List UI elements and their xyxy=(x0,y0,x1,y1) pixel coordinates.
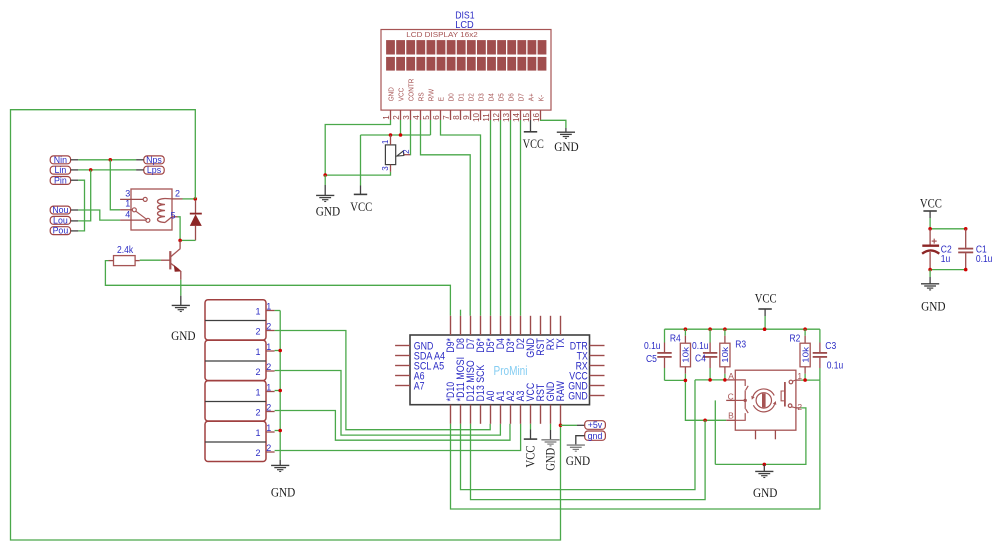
svg-text:GND: GND xyxy=(568,390,588,402)
LCD display DIS1 name labels xyxy=(455,11,475,31)
wire Nou to relay pin4 xyxy=(71,210,121,220)
trimmer potentiometer (LCD contrast) xyxy=(381,135,411,172)
wire LCD pin1 (GND) down-left to ground node xyxy=(325,120,390,175)
2-pin connector J2 xyxy=(205,340,275,380)
encoder rotary shaft symbol xyxy=(751,389,776,412)
svg-text:VCC: VCC xyxy=(350,199,372,214)
svg-text:VCC: VCC xyxy=(755,291,777,306)
ground symbol GND at transistor emitter xyxy=(171,280,195,343)
wire LCD pin6 (E) to ProMini D6* xyxy=(441,120,481,316)
svg-text:D5: D5 xyxy=(497,93,506,101)
svg-text:5: 5 xyxy=(422,115,431,120)
connector Nou xyxy=(50,205,70,215)
wire net B to ProMini D12 xyxy=(471,420,706,499)
svg-text:GND: GND xyxy=(554,139,578,154)
connector Lou xyxy=(50,215,70,225)
wire relay supply loop from +5v RAW around the page xyxy=(11,110,561,540)
svg-text:TX: TX xyxy=(555,338,567,350)
connector +5v xyxy=(585,420,606,430)
wire net B bottom C5-R4 to encoder pin B xyxy=(665,380,727,420)
capacitor C1 0.1u xyxy=(958,229,992,270)
wire J3 pin2 to ProMini A2 xyxy=(275,411,510,441)
ground symbol GND below connector block xyxy=(271,460,295,499)
svg-text:D7: D7 xyxy=(517,93,526,101)
wire RAW junction to +5v connector xyxy=(561,424,585,426)
wire LCD pin13 (D6) to ProMini D3* xyxy=(510,120,512,316)
wire LCD pin4 (RS) to ProMini D7 xyxy=(421,120,471,316)
svg-text:Nps: Nps xyxy=(146,155,162,165)
wire encoder VCC rail xyxy=(665,328,820,330)
connector Nin xyxy=(50,155,70,165)
junction VCC at trimmer pin1 xyxy=(389,133,393,137)
ground symbol GND below encoder xyxy=(753,464,777,500)
ProMini left pins xyxy=(395,340,445,392)
resistor R4 10k xyxy=(670,329,691,380)
svg-text:D4: D4 xyxy=(487,93,496,101)
svg-text:2: 2 xyxy=(255,367,260,377)
wire Lin net down to Lou xyxy=(71,170,91,221)
svg-text:3: 3 xyxy=(125,188,130,198)
encoder pin B xyxy=(726,411,745,421)
svg-text:A+: A+ xyxy=(527,93,536,102)
flyback diode xyxy=(190,200,202,240)
wire LCD pin3 (CONTR) to trimmer wiper xyxy=(409,120,411,155)
svg-text:2: 2 xyxy=(797,402,802,412)
rotary encoder body xyxy=(735,370,796,430)
ProMini bottom pin labels xyxy=(445,357,567,402)
wire 2.4k resistor to ProMini D9* xyxy=(105,261,450,316)
wire ground node to trimmer pin3 xyxy=(325,172,390,175)
encoder mounting stubs xyxy=(756,430,776,439)
wire VCC to C1 C2 top xyxy=(930,228,966,230)
svg-text:1: 1 xyxy=(255,428,260,438)
svg-text:Lps: Lps xyxy=(147,165,162,175)
svg-text:GND: GND xyxy=(921,299,945,314)
svg-text:1: 1 xyxy=(125,199,130,209)
junction switch net at R2 bottom xyxy=(803,378,807,382)
svg-text:Lou: Lou xyxy=(53,215,68,225)
svg-text:0.1u: 0.1u xyxy=(827,361,844,372)
connector Lps xyxy=(144,165,164,175)
svg-text:0.1u: 0.1u xyxy=(976,254,993,265)
svg-text:1: 1 xyxy=(382,115,391,120)
svg-text:GND: GND xyxy=(753,485,777,500)
svg-text:1: 1 xyxy=(255,347,260,357)
wire Pin to Pou xyxy=(71,180,85,231)
wire Nin to Nps xyxy=(71,159,144,161)
LCD display DIS1 body outline xyxy=(381,30,551,111)
svg-text:Lin: Lin xyxy=(55,165,67,175)
junction net B down to D12 xyxy=(703,419,707,423)
relay pin5 coil terminal xyxy=(171,211,181,241)
VCC supply symbol near trimmer xyxy=(350,135,372,214)
wire C1 C2 bottom to ground xyxy=(930,269,966,271)
svg-text:VCC: VCC xyxy=(523,136,544,151)
encoder pin C common xyxy=(726,392,745,402)
LCD pins 1-16 stubs and numbers xyxy=(382,110,541,122)
wire connector common ground bus xyxy=(275,311,281,461)
relay pin4 NO contact xyxy=(120,210,150,223)
relay coil xyxy=(158,199,173,223)
svg-text:16: 16 xyxy=(532,113,541,122)
capacitor C4 0.1u xyxy=(692,329,717,380)
relay pin2 coil terminal xyxy=(172,189,195,199)
svg-text:11: 11 xyxy=(482,113,491,122)
junction relay pin2 / diode cathode xyxy=(194,197,198,201)
svg-text:D6: D6 xyxy=(507,93,516,101)
junction encoder ground xyxy=(763,463,767,467)
svg-text:2: 2 xyxy=(255,327,260,337)
short net stub on ProMini D8 xyxy=(460,310,462,316)
svg-text:10k: 10k xyxy=(800,346,810,363)
LCD pin name labels xyxy=(387,78,546,101)
wire encoder pin2 and C to ground xyxy=(715,400,806,464)
svg-text:1: 1 xyxy=(266,342,271,352)
junction net A at R3 bottom xyxy=(723,378,727,382)
junction C1 bottom xyxy=(964,268,968,272)
ProMini bottom pins xyxy=(451,405,561,424)
resistor R3 10k xyxy=(720,329,747,380)
svg-text:0.1u: 0.1u xyxy=(644,341,661,352)
junction on Nin net xyxy=(109,158,113,162)
svg-text:GND: GND xyxy=(171,328,195,343)
VCC supply symbol at ProMini VCC pin xyxy=(523,424,538,468)
wire net switch R2-C3 to encoder pin 1 xyxy=(801,379,820,381)
svg-text:B: B xyxy=(728,411,734,421)
ground symbol at ProMini GND pin xyxy=(541,424,559,471)
svg-text:1u: 1u xyxy=(941,254,951,265)
svg-text:1: 1 xyxy=(381,139,390,144)
ground symbol GND below C2 xyxy=(921,270,946,314)
svg-text:R/W: R/W xyxy=(427,88,436,101)
transistor Q1 (NPN relay driver) xyxy=(161,240,182,279)
relay body outline xyxy=(131,189,172,230)
svg-text:5: 5 xyxy=(171,211,176,221)
svg-text:2: 2 xyxy=(255,448,260,458)
svg-text:GND: GND xyxy=(271,484,295,499)
svg-text:13: 13 xyxy=(502,113,511,122)
svg-text:C4: C4 xyxy=(695,353,706,364)
wire Lin to Lps xyxy=(71,169,144,171)
svg-text:C3: C3 xyxy=(825,341,836,352)
capacitor C3 0.1u xyxy=(813,329,844,380)
svg-text:+5v: +5v xyxy=(588,420,603,430)
svg-text:2: 2 xyxy=(175,189,180,199)
svg-text:2: 2 xyxy=(266,322,271,332)
resistor 2.4k base resistor xyxy=(109,245,161,266)
encoder pin 2 xyxy=(792,402,803,412)
VCC supply symbol at LCD pin15 xyxy=(523,120,544,151)
wire LCD pin11 (D4) to ProMini D5* xyxy=(490,120,492,316)
junction C2 top xyxy=(928,227,932,231)
junction ground bus J4 pin1 xyxy=(278,429,282,433)
junction VCC rail at R4 xyxy=(684,327,688,331)
svg-text:C5: C5 xyxy=(646,354,657,365)
junction collector node xyxy=(178,239,182,243)
connector gnd xyxy=(585,431,606,441)
svg-text:R4: R4 xyxy=(670,334,681,345)
svg-text:10: 10 xyxy=(472,113,481,122)
2-pin connector J1 xyxy=(205,300,275,340)
wire VCC rail to LCD pin2 and pin5 (R/W) xyxy=(361,120,431,135)
capacitor C5 0.1u xyxy=(644,329,672,380)
junction VCC at LCD pin2 xyxy=(399,133,403,137)
capacitor C2 1u polarized xyxy=(922,229,952,270)
junction VCC rail at R2 xyxy=(803,327,807,331)
svg-text:ProMini: ProMini xyxy=(494,363,528,378)
junction ground bus J3 pin1 xyxy=(278,389,282,393)
svg-text:GND: GND xyxy=(316,204,340,219)
svg-text:2: 2 xyxy=(266,443,271,453)
svg-text:6: 6 xyxy=(432,115,441,120)
svg-text:GND: GND xyxy=(387,87,396,102)
junction on Lin net xyxy=(89,168,93,172)
svg-text:1: 1 xyxy=(266,383,271,393)
svg-text:1: 1 xyxy=(266,302,271,312)
svg-text:9: 9 xyxy=(462,115,471,120)
svg-text:Nin: Nin xyxy=(54,155,67,165)
svg-text:Pou: Pou xyxy=(53,226,69,236)
wire LCD pin16 (K-) to ground xyxy=(541,120,566,128)
junction ground node xyxy=(323,173,327,177)
encoder pin 1 xyxy=(792,371,802,381)
svg-text:10k: 10k xyxy=(720,346,730,363)
encoder push switch xyxy=(781,380,793,407)
svg-text:15: 15 xyxy=(522,113,531,122)
wire net A bottom C4-R3 to encoder pin A xyxy=(695,379,726,381)
svg-text:RS: RS xyxy=(417,92,426,101)
svg-text:0.1u: 0.1u xyxy=(692,341,709,352)
svg-text:GND: GND xyxy=(543,448,558,471)
svg-text:VCC: VCC xyxy=(397,87,406,101)
svg-text:Nou: Nou xyxy=(52,205,68,215)
svg-text:7: 7 xyxy=(442,115,451,120)
junction ground bus J2 pin1 xyxy=(278,349,282,353)
svg-text:4: 4 xyxy=(412,115,421,120)
svg-text:D0: D0 xyxy=(447,93,456,101)
svg-text:3: 3 xyxy=(381,166,390,171)
wire switch net to ProMini D10 xyxy=(451,380,820,509)
svg-text:CONTR: CONTR xyxy=(407,78,416,101)
VCC supply symbol above encoder xyxy=(755,291,777,330)
ProMini right pins xyxy=(568,340,604,402)
wire J1 pin2 to ProMini A0 xyxy=(275,331,491,430)
junction C2 bottom xyxy=(928,268,932,272)
connector Nps xyxy=(144,155,164,165)
svg-text:A7: A7 xyxy=(414,380,425,392)
ground symbol GND at LCD pin16 xyxy=(554,128,578,154)
ProMini module body xyxy=(410,335,590,405)
svg-text:E: E xyxy=(437,97,446,101)
ProMini top pin labels xyxy=(445,338,567,358)
svg-text:2: 2 xyxy=(402,149,411,154)
svg-text:K-: K- xyxy=(537,94,546,101)
encoder pin A xyxy=(726,371,745,386)
junction VCC rail at VCC symbol xyxy=(763,327,767,331)
wire J4 pin2 to ProMini A3 xyxy=(275,424,521,451)
svg-text:VCC: VCC xyxy=(920,196,942,211)
svg-text:1: 1 xyxy=(255,388,260,398)
svg-text:1: 1 xyxy=(266,423,271,433)
connector Lin xyxy=(50,165,70,175)
svg-text:D3: D3 xyxy=(477,93,486,101)
svg-text:RAW: RAW xyxy=(555,380,567,401)
relay pin1 common contact and arm xyxy=(120,199,147,220)
relay pin3 NC contact xyxy=(120,188,147,201)
wire diode anode to transistor collector xyxy=(180,239,195,241)
svg-text:Pin: Pin xyxy=(54,176,67,186)
junction VCC rail at C4 xyxy=(708,327,712,331)
2-pin connector J4 xyxy=(205,421,275,461)
svg-text:C: C xyxy=(728,392,734,402)
encoder internal contacts xyxy=(744,386,748,413)
junction C1 top xyxy=(964,227,968,231)
connector Pin xyxy=(50,176,70,186)
svg-text:D2: D2 xyxy=(467,93,476,101)
junction VCC rail at R3 xyxy=(723,327,727,331)
VCC supply symbol at decoupling caps xyxy=(920,196,942,229)
2-pin connector J3 xyxy=(205,381,275,421)
wire net A to ProMini D11 xyxy=(461,380,696,490)
wire Nin net down to relay pin1 xyxy=(110,160,120,210)
svg-text:4: 4 xyxy=(125,210,130,220)
svg-text:R2: R2 xyxy=(790,334,801,345)
ground symbol at gnd connector xyxy=(566,436,590,468)
svg-text:1: 1 xyxy=(797,371,802,381)
svg-text:2: 2 xyxy=(255,408,260,418)
junction net A at C4 bottom xyxy=(708,378,712,382)
svg-text:A: A xyxy=(728,371,734,381)
resistor R2 10k xyxy=(790,329,811,380)
wire LCD pin12 (D5) to ProMini D4 xyxy=(500,120,502,316)
svg-text:2: 2 xyxy=(392,115,401,120)
svg-text:10k: 10k xyxy=(681,346,691,363)
LCD character cells xyxy=(386,40,546,71)
svg-text:GND: GND xyxy=(566,453,590,468)
svg-text:2: 2 xyxy=(266,362,271,372)
ProMini top pins xyxy=(451,316,561,335)
svg-text:R3: R3 xyxy=(735,339,746,350)
svg-text:3: 3 xyxy=(402,115,411,120)
svg-text:gnd: gnd xyxy=(588,431,603,441)
svg-text:2.4k: 2.4k xyxy=(117,245,134,256)
svg-text:14: 14 xyxy=(512,113,521,122)
svg-text:LCD DISPLAY 16x2: LCD DISPLAY 16x2 xyxy=(406,30,478,39)
svg-text:8: 8 xyxy=(452,115,461,120)
ground symbol GND below trimmer xyxy=(316,175,340,218)
svg-text:VCC: VCC xyxy=(523,446,538,468)
junction net B at R4 bottom xyxy=(684,379,688,383)
wire J2 pin2 to ProMini A1 xyxy=(275,371,501,436)
svg-text:2: 2 xyxy=(266,403,271,413)
wire LCD pin14 (D7) to ProMini D2 xyxy=(520,120,522,316)
svg-text:12: 12 xyxy=(492,113,501,122)
connector Pou xyxy=(50,226,70,236)
svg-text:D1: D1 xyxy=(457,93,466,101)
svg-text:1: 1 xyxy=(255,307,260,317)
junction ProMini RAW to +5v xyxy=(559,424,563,428)
